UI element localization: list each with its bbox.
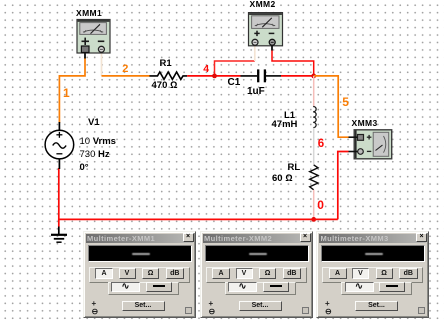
node 5 [342,96,349,108]
wire node4 red R1 to junction [187,75,214,77]
node 6 [318,139,324,151]
label C1 [228,78,241,88]
label V1 value 10 Vrms [80,137,116,147]
wire node2 pale drop from XMM1 right terminal [101,53,103,76]
wire node5 orange to XMM3 plus [314,76,349,137]
node 2 [122,64,128,75]
wire node4 red loop up through XMM2 left [215,61,255,76]
wire node6 pale gray L1 to RL [313,128,315,165]
wire red C1 left [215,75,241,77]
resistor RL [310,165,318,190]
ground [51,219,67,242]
label XMM3 [352,119,378,128]
label XMM2 [250,0,276,9]
label V1 freq 730 Hz [80,150,110,160]
wire pale drop XMM2 left terminal [254,46,256,61]
window Multimeter-XMM1 [83,231,196,318]
wire red bottom rail [59,168,338,219]
junction node5 [311,74,316,79]
wire red XMM3 minus return [338,152,349,220]
wire pale pink junction to L1 top [313,76,315,107]
multimeter XMM1 icon [77,20,110,54]
window Multimeter-XMM2 [200,231,313,318]
node 4 [203,64,209,75]
wire red XMM2 right terminal to node5 junction [272,50,314,76]
junction node 4 [212,74,217,79]
label C1 value 1uF [247,87,265,97]
junction node 0 [311,217,316,222]
wire pale pink RL bottom to ground rail [313,190,315,220]
node 1 [63,87,70,99]
bottom white margin [0,320,444,333]
label XMM1 [76,9,102,18]
source V1 [45,122,74,169]
label V1 phase 0 deg [80,163,89,173]
label R1 [160,59,172,69]
resistor R1 [150,72,188,79]
label RL [288,163,301,173]
multimeter XMM3 icon [349,130,392,159]
node 0 [317,199,324,211]
capacitor C1 [241,69,282,82]
XMM1 terminal stubs [85,46,272,59]
inductor L1 [313,107,316,128]
wire red C1 right to junction node5 [281,75,314,77]
label V1 [88,118,100,128]
label L1 value 47mH [272,120,298,130]
wire node2 orange run to R1 [102,75,151,77]
window Multimeter-XMM3 [316,231,429,318]
label L1 [284,111,295,121]
label R1 value 470 ohm [152,81,178,91]
multimeter XMM2 icon [249,13,283,46]
wire node1 orange V1 to XMM1 [59,57,85,123]
label RL value 60 ohm [272,174,293,184]
